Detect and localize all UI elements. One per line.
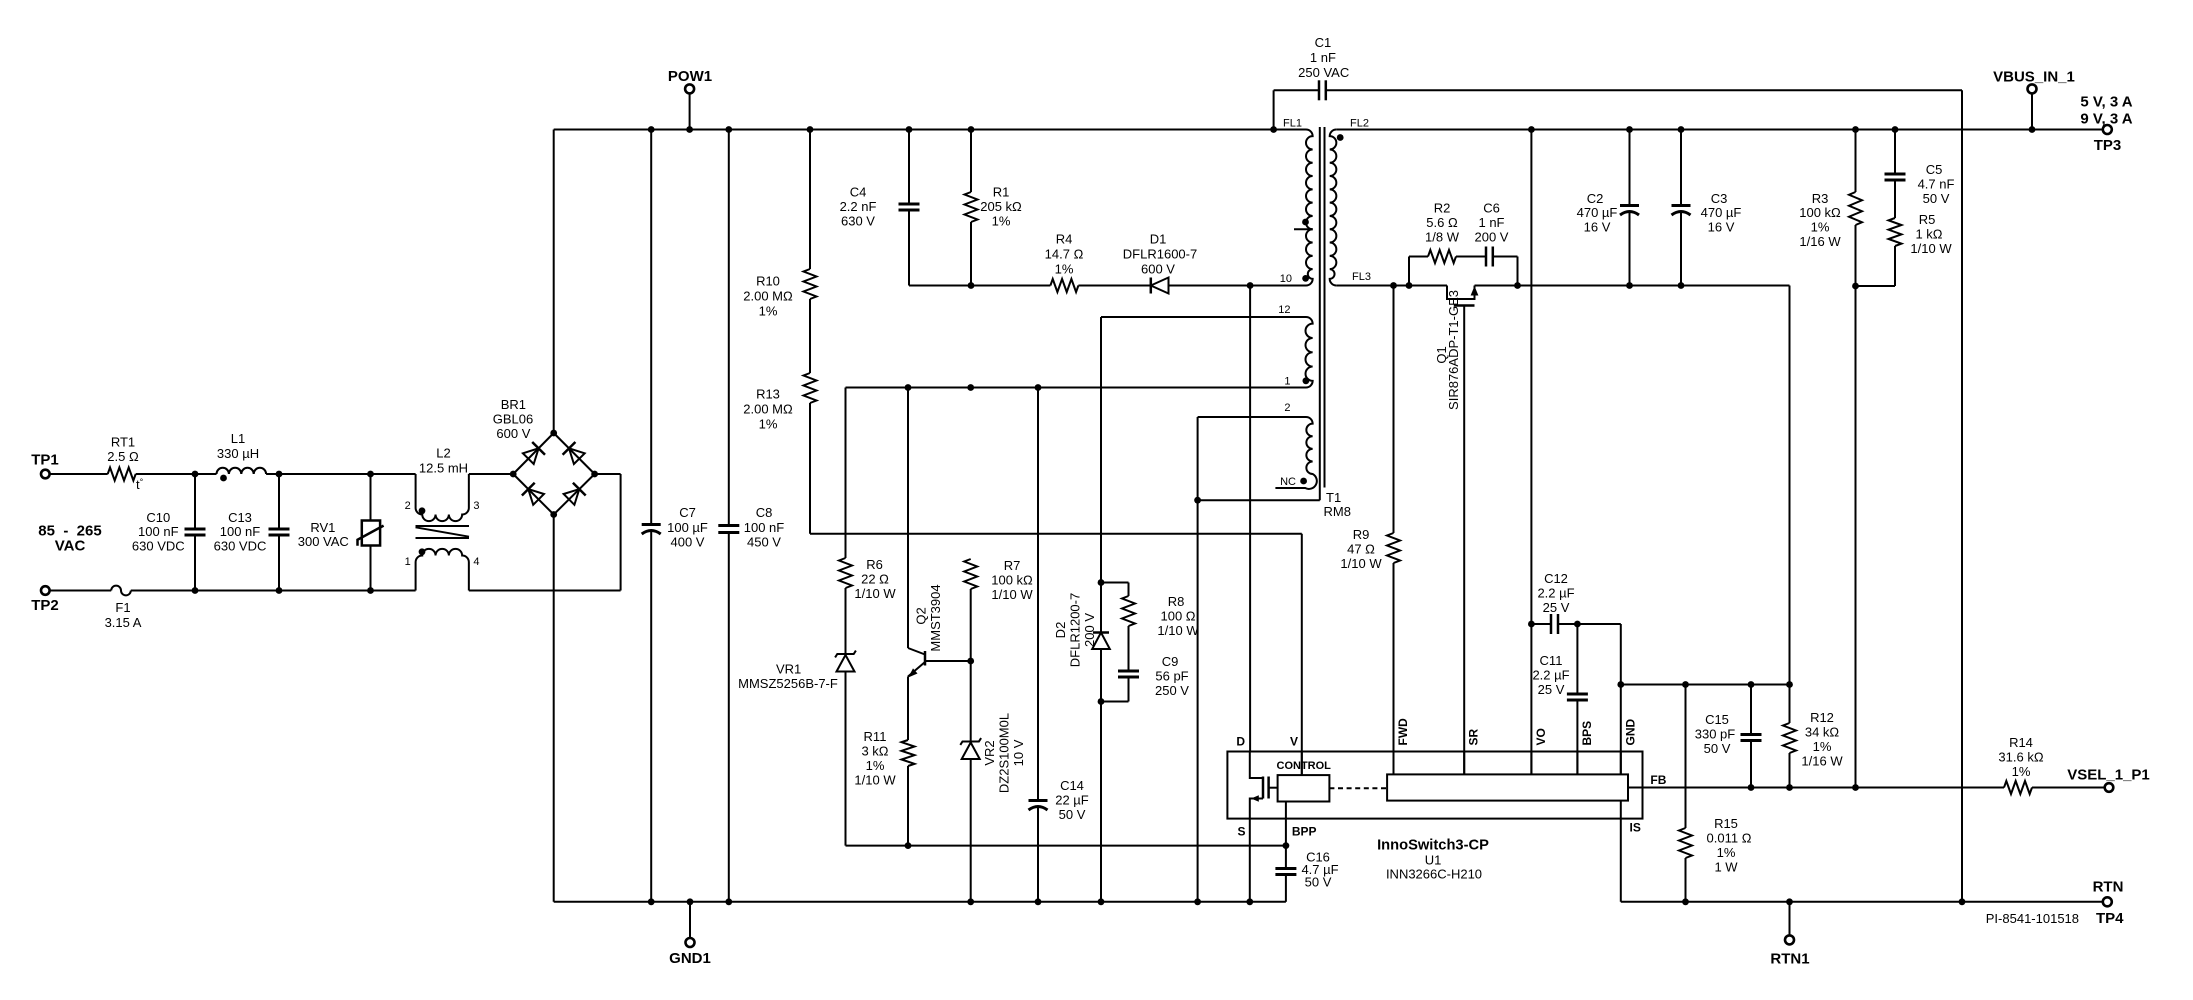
svg-text:12: 12: [1278, 304, 1290, 316]
junction node return-C3: [1678, 282, 1685, 289]
svg-text:TP4: TP4: [2096, 910, 2124, 927]
svg-text:BPP: BPP: [1292, 825, 1317, 839]
wire L2 pin4 to BR1 AC2: [469, 590, 621, 592]
svg-text:2.00 MΩ: 2.00 MΩ: [743, 289, 793, 304]
terminal VSEL_1_P1: [2067, 767, 2150, 792]
terminal TP3: [2080, 94, 2132, 155]
svg-text:31.6 kΩ: 31.6 kΩ: [1998, 750, 2043, 765]
svg-text:Q2: Q2: [914, 607, 929, 624]
svg-text:300 VAC: 300 VAC: [298, 534, 349, 549]
wire R3 to R5 bottom: [1856, 285, 1896, 287]
wire shield connection: [1198, 499, 1320, 501]
wire DC bus rail: [554, 129, 1306, 131]
svg-text:50 V: 50 V: [1059, 807, 1086, 822]
svg-text:1: 1: [1284, 376, 1290, 388]
svg-text:C5: C5: [1926, 162, 1943, 177]
junction node pin2-shield: [1194, 497, 1201, 504]
junction node AC-L top: [192, 471, 199, 478]
svg-text:1 nF: 1 nF: [1310, 50, 1336, 65]
transistor Q2: [908, 388, 943, 741]
junction node gnd-shield: [1194, 898, 1201, 905]
svg-text:9 V, 3 A: 9 V, 3 A: [2080, 111, 2132, 128]
svg-text:1%: 1%: [759, 304, 778, 319]
capacitor C2: [1577, 130, 1639, 286]
svg-text:D1: D1: [1150, 232, 1167, 247]
capacitor C9: [1101, 654, 1189, 702]
junction node gnd-C14: [1035, 898, 1042, 905]
svg-text:1: 1: [405, 556, 411, 568]
svg-text:4.7 nF: 4.7 nF: [1918, 177, 1955, 192]
wire RT1 to L1: [136, 473, 217, 475]
svg-text:C8: C8: [756, 505, 773, 520]
svg-text:250 V: 250 V: [1155, 683, 1189, 698]
mosfet Q1: [1434, 286, 1478, 775]
svg-text:22 Ω: 22 Ω: [861, 572, 889, 587]
junction node AC-RV1 bottom: [367, 587, 374, 594]
svg-text:MMSZ5256B-7-F: MMSZ5256B-7-F: [738, 676, 838, 691]
svg-text:1%: 1%: [759, 417, 778, 432]
svg-text:C6: C6: [1483, 201, 1500, 216]
svg-text:50 V: 50 V: [1923, 191, 1950, 206]
resistor R10: [743, 130, 816, 319]
svg-text:U1: U1: [1425, 853, 1442, 868]
resistor R11: [854, 729, 914, 846]
capacitor C13: [214, 474, 290, 591]
junction node FL3-snubber: [1406, 282, 1413, 289]
svg-text:NC: NC: [1280, 476, 1296, 488]
capacitor C4: [840, 130, 920, 286]
svg-text:1%: 1%: [1717, 845, 1736, 860]
svg-text:630 V: 630 V: [841, 214, 875, 229]
diode D1: [1123, 232, 1197, 294]
svg-text:F1: F1: [115, 600, 130, 615]
junction node gnd-C7: [648, 898, 655, 905]
svg-text:100 kΩ: 100 kΩ: [991, 573, 1033, 588]
wire VO net: [1530, 130, 1532, 775]
U1 pin V stub: [1301, 752, 1303, 776]
wire Q1 to output return: [1475, 285, 1790, 287]
svg-text:L1: L1: [231, 431, 245, 446]
junction node R3-R5: [1852, 283, 1859, 290]
svg-text:GND1: GND1: [669, 950, 711, 967]
svg-text:R1: R1: [993, 185, 1010, 200]
junction node gnd-S: [1246, 898, 1253, 905]
svg-text:1 nF: 1 nF: [1478, 215, 1504, 230]
junction node GNDrail-R12: [1786, 681, 1793, 688]
svg-text:200 V: 200 V: [1475, 230, 1509, 245]
svg-text:450 V: 450 V: [747, 535, 781, 550]
transformer T1: [1275, 118, 1371, 520]
svg-text:630 VDC: 630 VDC: [214, 538, 267, 553]
svg-text:10: 10: [1280, 273, 1292, 285]
svg-text:RT1: RT1: [111, 434, 135, 449]
svg-text:FL3: FL3: [1352, 271, 1371, 283]
svg-text:RTN1: RTN1: [1770, 950, 1809, 967]
svg-text:200 V: 200 V: [1082, 613, 1097, 647]
svg-text:10 V: 10 V: [1011, 739, 1026, 766]
svg-text:R13: R13: [756, 387, 780, 402]
svg-text:INN3266C-H210: INN3266C-H210: [1386, 866, 1482, 881]
svg-text:56 pF: 56 pF: [1155, 669, 1188, 684]
svg-text:R14: R14: [2009, 735, 2033, 750]
svg-text:100 µF: 100 µF: [667, 520, 708, 535]
svg-text:V: V: [1290, 735, 1298, 749]
svg-text:R11: R11: [864, 729, 887, 744]
junction node AC-C13 top: [276, 471, 283, 478]
svg-text:1/10 W: 1/10 W: [1910, 241, 1952, 256]
svg-text:16 V: 16 V: [1708, 220, 1735, 235]
svg-text:MMST3904: MMST3904: [928, 584, 943, 651]
resistor R15: [1679, 685, 1752, 902]
inductor L1: [217, 431, 267, 481]
svg-text:1/16 W: 1/16 W: [1799, 234, 1841, 249]
junction node FB-R12: [1786, 784, 1793, 791]
svg-text:3: 3: [473, 500, 479, 512]
junction node bus-C1: [1270, 126, 1277, 133]
svg-text:PI-8541-101518: PI-8541-101518: [1986, 911, 2079, 926]
wire FB net: [1628, 787, 2004, 789]
junction node GNDrail-R15: [1682, 681, 1689, 688]
svg-text:250 VAC: 250 VAC: [1298, 65, 1349, 80]
junction node return-C2: [1626, 282, 1633, 289]
svg-text:1/10 W: 1/10 W: [854, 773, 896, 788]
svg-text:C14: C14: [1060, 778, 1084, 793]
svg-text:FB: FB: [1650, 773, 1666, 787]
terminal TP1: [31, 452, 59, 479]
svg-text:100 Ω: 100 Ω: [1160, 609, 1195, 624]
junction node bus-R10: [807, 126, 814, 133]
svg-text:34 kΩ: 34 kΩ: [1805, 725, 1840, 740]
wire GND rail: [1621, 684, 1790, 686]
svg-text:1/10 W: 1/10 W: [1340, 556, 1382, 571]
svg-text:1/16 W: 1/16 W: [1801, 754, 1843, 769]
wire TP1 to RT1: [50, 473, 108, 475]
svg-text:1%: 1%: [2012, 764, 2031, 779]
svg-text:DFLR1200-7: DFLR1200-7: [1068, 593, 1083, 667]
terminal POW1: [668, 68, 712, 129]
svg-text:1/10 W: 1/10 W: [854, 586, 896, 601]
svg-text:R4: R4: [1056, 232, 1073, 247]
svg-text:25 V: 25 V: [1543, 600, 1570, 615]
capacitor C6: [1475, 201, 1518, 286]
capacitor C3: [1672, 130, 1742, 286]
wire T1 pin12 rail: [1101, 316, 1306, 318]
svg-text:1%: 1%: [866, 758, 885, 773]
svg-text:GND: GND: [1623, 719, 1637, 746]
svg-text:SIR876ADP-T1-GE3: SIR876ADP-T1-GE3: [1446, 290, 1461, 410]
svg-text:POW1: POW1: [668, 68, 712, 85]
svg-text:TP2: TP2: [31, 597, 59, 614]
svg-text:22 µF: 22 µF: [1055, 793, 1089, 808]
svg-text:50 V: 50 V: [1305, 875, 1332, 890]
svg-text:470 µF: 470 µF: [1577, 205, 1618, 220]
capacitor C8: [718, 130, 784, 902]
svg-text:RV1: RV1: [310, 520, 335, 535]
junction node pin10-D: [1247, 282, 1254, 289]
svg-text:1/10 W: 1/10 W: [991, 587, 1033, 602]
svg-text:TP1: TP1: [31, 452, 59, 469]
svg-text:R12: R12: [1810, 710, 1834, 725]
junction node VO-C12: [1528, 621, 1535, 628]
junction node AC-C10 bottom: [192, 587, 199, 594]
junction node vbus-C2: [1626, 126, 1633, 133]
svg-text:FL2: FL2: [1350, 118, 1369, 130]
junction node FL3-R9: [1390, 282, 1397, 289]
wire D net vertical: [1249, 286, 1251, 752]
junction node vbus-C3: [1678, 126, 1685, 133]
wire L2 pin3 to BR1: [469, 473, 513, 475]
svg-text:C10: C10: [146, 510, 170, 525]
capacitor C10: [132, 474, 206, 591]
svg-text:R6: R6: [866, 557, 883, 572]
wire BR1 plus to DC bus: [553, 130, 555, 434]
junction node gnd-VR2: [967, 898, 974, 905]
svg-text:2: 2: [1284, 402, 1290, 414]
svg-text:R5: R5: [1919, 212, 1936, 227]
wire F1 to L2 pin1: [131, 590, 416, 592]
svg-text:C11: C11: [1540, 653, 1563, 668]
wire FL3 to Q1: [1336, 285, 1447, 287]
junction node FB-R3: [1852, 784, 1859, 791]
wire L1 to L2 pin2: [266, 473, 416, 475]
junction node RTN-R15: [1682, 898, 1689, 905]
U1 pin S wire: [1249, 819, 1251, 902]
wire primary GND rail: [554, 901, 1286, 903]
wire BPP net: [846, 845, 1286, 847]
svg-text:D: D: [1236, 735, 1245, 749]
junction node AC-RV1 top: [367, 471, 374, 478]
label input voltage: [38, 523, 101, 555]
resistor R13: [743, 299, 816, 432]
capacitor C11: [1532, 624, 1587, 774]
capacitor C5: [1885, 130, 1955, 219]
terminal TP4 RTN: [2093, 878, 2125, 927]
U1 pin BPP wire: [1285, 802, 1287, 846]
junction node R11-BPP: [905, 842, 912, 849]
resistor R14: [1998, 735, 2104, 794]
svg-text:100 kΩ: 100 kΩ: [1799, 205, 1841, 220]
svg-text:50 V: 50 V: [1704, 741, 1731, 756]
U1 name labels: [1377, 838, 1489, 882]
svg-text:1/10 W: 1/10 W: [1157, 623, 1199, 638]
resistor R6: [839, 388, 896, 602]
svg-text:C2: C2: [1587, 191, 1604, 206]
svg-text:InnoSwitch3-CP: InnoSwitch3-CP: [1377, 838, 1489, 854]
svg-text:16 V: 16 V: [1584, 220, 1611, 235]
wire RTN rail: [1621, 901, 2103, 903]
resistor R8: [1101, 583, 1199, 672]
svg-text:DZ2S100M0L: DZ2S100M0L: [997, 713, 1012, 793]
resistor R3: [1799, 130, 1862, 788]
svg-text:C4: C4: [850, 185, 867, 200]
svg-text:BR1: BR1: [501, 397, 526, 412]
capacitor C12: [1531, 571, 1620, 634]
svg-text:1%: 1%: [1811, 220, 1830, 235]
junction node RTN-C1: [1959, 898, 1966, 905]
svg-text:12.5 mH: 12.5 mH: [419, 460, 468, 475]
junction node GNDrail-C15: [1748, 681, 1755, 688]
resistor R1: [965, 130, 1023, 286]
wire T1 pin2 rail: [1198, 416, 1306, 418]
junction node vbus-R3: [1852, 126, 1859, 133]
wire GND pin net: [1620, 624, 1622, 774]
junction node RTN-RTN1: [1786, 898, 1793, 905]
svg-text:C9: C9: [1162, 654, 1179, 669]
junction node GND-rail: [1617, 681, 1624, 688]
junction node bus-C7: [648, 126, 655, 133]
junction node AC-C13 bottom: [276, 587, 283, 594]
svg-text:25 V: 25 V: [1538, 682, 1565, 697]
svg-text:C3: C3: [1711, 191, 1728, 206]
svg-text:R9: R9: [1353, 527, 1370, 542]
svg-text:VR1: VR1: [776, 662, 801, 677]
svg-text:CONTROL: CONTROL: [1277, 760, 1332, 772]
junction node gnd-D2: [1098, 898, 1105, 905]
junction node BPP-C16: [1283, 842, 1290, 849]
junction node D2-C9 bottom: [1098, 698, 1105, 705]
junction node BPS-C12: [1574, 621, 1581, 628]
svg-text:VAC: VAC: [55, 538, 86, 555]
junction node bias-Q2: [905, 384, 912, 391]
svg-text:2.5 Ω: 2.5 Ω: [107, 449, 139, 464]
zener VR1: [738, 588, 856, 846]
terminal TP2: [31, 586, 59, 614]
svg-text:1 W: 1 W: [1714, 860, 1738, 875]
junction node gnd-GND1: [687, 898, 694, 905]
IC U1 outline: [1227, 752, 1642, 819]
svg-text:VBUS_IN_1: VBUS_IN_1: [1993, 69, 2075, 86]
svg-text:100 nF: 100 nF: [744, 520, 785, 535]
svg-text:R15: R15: [1714, 816, 1738, 831]
junction node Q2base-VR2: [967, 658, 974, 665]
svg-text:630 VDC: 630 VDC: [132, 538, 185, 553]
svg-text:47 Ω: 47 Ω: [1347, 542, 1375, 557]
svg-text:BPS: BPS: [1580, 721, 1594, 746]
inductor L2 common-mode choke: [405, 446, 480, 591]
svg-text:D2: D2: [1053, 622, 1068, 639]
wire IS pin to RTN rail: [1620, 801, 1622, 902]
wire VBUS rail: [1336, 129, 2103, 131]
svg-text:100 nF: 100 nF: [138, 524, 179, 539]
svg-text:IS: IS: [1630, 821, 1641, 835]
svg-text:2.2 nF: 2.2 nF: [840, 199, 877, 214]
wire bias rail pin1: [846, 387, 1307, 389]
svg-text:1%: 1%: [1055, 262, 1074, 277]
zener VR2: [960, 661, 1026, 902]
capacitor C14: [1029, 388, 1089, 902]
svg-text:2.2 µF: 2.2 µF: [1532, 668, 1569, 683]
wire R4 to D1: [1078, 285, 1150, 287]
wire D1 to T1 pin10: [1169, 285, 1307, 287]
svg-text:R3: R3: [1812, 191, 1829, 206]
capacitor C16: [1275, 846, 1338, 902]
wire TP2 to F1: [50, 590, 111, 592]
svg-text:330 pF: 330 pF: [1695, 727, 1736, 742]
IC U1 secondary block: [1387, 774, 1628, 800]
U1 pin stubs secondary: [1394, 752, 1621, 775]
IC U1 control block: [1278, 775, 1330, 801]
U1 magnetic link: [1329, 787, 1387, 789]
junction node gnd-C8: [725, 898, 732, 905]
svg-text:R2: R2: [1434, 201, 1451, 216]
svg-text:VSEL_1_P1: VSEL_1_P1: [2067, 767, 2150, 784]
wire Q2 base to R7-VR2 node: [925, 660, 971, 662]
resistor R2: [1409, 201, 1486, 286]
svg-text:205 kΩ: 205 kΩ: [980, 199, 1022, 214]
svg-text:GBL06: GBL06: [493, 412, 533, 427]
svg-text:400 V: 400 V: [671, 535, 705, 550]
varistor RV1: [298, 474, 384, 591]
junction node bus-C4: [906, 126, 913, 133]
diode D2: [1053, 317, 1110, 902]
wire clamp rail: [909, 285, 1050, 287]
svg-text:2.2 µF: 2.2 µF: [1537, 586, 1574, 601]
junction node bias-R7: [967, 384, 974, 391]
resistor R12: [1783, 685, 1843, 788]
capacitor C15: [1695, 685, 1762, 788]
svg-text:FL1: FL1: [1283, 118, 1302, 130]
resistor R4: [1045, 232, 1084, 293]
bridge rectifier BR1: [493, 397, 598, 518]
svg-text:R7: R7: [1004, 558, 1021, 573]
svg-text:1%: 1%: [992, 214, 1011, 229]
svg-text:C15: C15: [1705, 712, 1729, 727]
resistor R7: [964, 558, 1033, 661]
junction node bias-C14: [1035, 384, 1042, 391]
resistor R5: [1889, 212, 1953, 286]
junction node vbus-C5: [1892, 126, 1899, 133]
svg-text:R8: R8: [1168, 594, 1185, 609]
svg-text:3.15 A: 3.15 A: [105, 615, 142, 630]
junction node bus-C8: [725, 126, 732, 133]
svg-text:470 µF: 470 µF: [1701, 205, 1742, 220]
svg-text:0.011 Ω: 0.011 Ω: [1707, 831, 1752, 846]
svg-text:2.00 MΩ: 2.00 MΩ: [743, 402, 793, 417]
wire return to GND rail: [1789, 286, 1791, 685]
wire BR1 minus to GND rail: [553, 515, 555, 902]
terminal RTN1: [1770, 902, 1809, 968]
fuse F1: [105, 586, 142, 630]
svg-text:1 kΩ: 1 kΩ: [1915, 227, 1942, 242]
svg-text:SR: SR: [1467, 728, 1481, 745]
svg-text:3 kΩ: 3 kΩ: [861, 744, 888, 759]
capacitor C1: [1274, 35, 1962, 902]
svg-text:T1: T1: [1326, 490, 1341, 505]
terminal VBUS_IN_1: [1993, 69, 2075, 130]
svg-text:600 V: 600 V: [1141, 262, 1175, 277]
svg-text:DFLR1600-7: DFLR1600-7: [1123, 247, 1197, 262]
svg-text:C1: C1: [1315, 35, 1332, 50]
svg-text:5 V, 3 A: 5 V, 3 A: [2080, 94, 2132, 111]
svg-text:4: 4: [473, 556, 479, 568]
capacitor C7: [642, 130, 708, 902]
svg-text:1%: 1%: [1813, 739, 1832, 754]
svg-text:RTN: RTN: [2093, 878, 2124, 895]
svg-text:1/8 W: 1/8 W: [1425, 230, 1460, 245]
svg-text:S: S: [1237, 825, 1245, 839]
junction node D2-R8 top: [1098, 579, 1105, 586]
svg-text:C12: C12: [1544, 571, 1568, 586]
svg-text:100 nF: 100 nF: [220, 524, 261, 539]
ground terminal GND1: [669, 902, 711, 967]
svg-text:330 µH: 330 µH: [217, 446, 259, 461]
svg-text:FWD: FWD: [1396, 718, 1410, 746]
svg-text:2: 2: [405, 500, 411, 512]
U1 internal mosfet: [1250, 752, 1278, 819]
svg-text:R10: R10: [756, 274, 780, 289]
junction node bus-POW1: [686, 126, 693, 133]
svg-text:VR2: VR2: [982, 740, 997, 765]
